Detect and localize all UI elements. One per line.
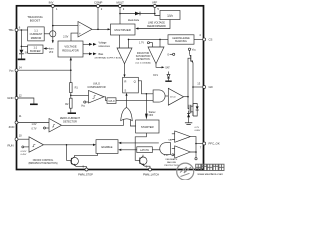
node stop-transistor tap	[66, 144, 68, 146]
svg-text:14: 14	[19, 66, 22, 70]
svg-text:INDUCTOR: INDUCTOR	[137, 53, 149, 55]
svg-text:Bias: Bias	[99, 53, 104, 56]
transistor Q11 (PWM_LATCH)	[139, 157, 147, 165]
svg-text:VOLTAGE: VOLTAGE	[64, 45, 77, 49]
comparator U3 ZCD	[49, 119, 62, 133]
block MULTIPLIER	[111, 24, 136, 35]
wire CS sense to T1	[128, 39, 130, 48]
ground (zener D3)	[165, 81, 171, 82]
ground (R2)	[70, 108, 72, 112]
wire E/A + input to 2.5V	[71, 33, 78, 41]
wire CS sense to T2	[159, 39, 161, 47]
pin 3 MULT	[119, 5, 122, 8]
svg-text:Driver: Driver	[170, 96, 176, 99]
svg-text:LEADING-EDGE: LEADING-EDGE	[172, 37, 190, 40]
wire FFP row into ENABLE	[121, 142, 159, 144]
node 2.5V terminal	[172, 154, 174, 156]
node MULT/diode junction	[119, 13, 121, 15]
svg-text:SAT: SAT	[168, 138, 173, 141]
svg-text:+: +	[79, 32, 81, 36]
pin 5 VFF	[153, 5, 156, 8]
svg-text:PFC_OK: PFC_OK	[209, 142, 220, 146]
svg-text:1:1: 1:1	[33, 46, 37, 50]
svg-text:RUN: RUN	[7, 143, 13, 147]
svg-text:UVLO: UVLO	[108, 101, 114, 103]
node Vcc input terminal	[84, 101, 86, 103]
wire divider to UVLO comparator	[71, 94, 89, 96]
svg-text:SATURATION: SATURATION	[136, 55, 151, 58]
svg-text:VFF: VFF	[49, 52, 54, 54]
svg-text:from: from	[49, 48, 54, 51]
and-gate U8 FFP (output left)	[160, 143, 171, 155]
svg-text:2.5V: 2.5V	[63, 36, 68, 39]
block LATCH1	[137, 147, 153, 153]
watermark stamp circle	[177, 163, 194, 180]
wire RUN comparator output to ENABLE	[44, 144, 94, 146]
svg-text:(BROWNOUT DETECTION): (BROWNOUT DETECTION)	[28, 163, 57, 165]
arrow bias internal supply bus	[83, 53, 90, 55]
pin 10 RUN	[15, 138, 18, 141]
node RUN threshold terminal	[22, 146, 24, 148]
wire MULT pin drop	[119, 6, 121, 24]
svg-text:BLANKING: BLANKING	[175, 40, 187, 43]
wire TBO pin to mirror	[18, 29, 28, 31]
wire GND pin to ground	[18, 98, 34, 104]
svg-text:1/V²: 1/V²	[167, 14, 173, 18]
resistor R1	[70, 83, 73, 93]
ground (zener)	[18, 59, 26, 61]
wire starter off	[145, 94, 147, 114]
wire LEB to CS pin	[194, 38, 203, 40]
block 1/V2	[160, 11, 180, 20]
wire gate node	[192, 63, 194, 116]
from VFF arrow into buffer	[43, 47, 46, 50]
wire starter bottom to latch transistor	[135, 133, 146, 160]
node internal Vcc	[188, 48, 190, 50]
comparator T1 PWM (down)	[117, 48, 132, 64]
svg-text:0.7V: 0.7V	[32, 128, 37, 131]
svg-text:FAILURE: FAILURE	[167, 161, 177, 164]
svg-text:BUFFER: BUFFER	[30, 49, 41, 53]
pin 2 COMP	[97, 5, 100, 8]
transistor Q9 (totem pole lower)	[188, 105, 190, 113]
svg-text:ON/OFF CONTROL: ON/OFF CONTROL	[33, 160, 54, 162]
svg-text:BOOST: BOOST	[30, 19, 41, 23]
svg-text:1.6V: 1.6V	[32, 123, 37, 126]
svg-text:Vcc: Vcc	[9, 68, 14, 72]
pin 12 GND	[15, 97, 18, 100]
wire VFF pin drop into 1/V2	[155, 6, 160, 16]
svg-text:12: 12	[19, 93, 22, 97]
wire ZCD pin to comparator	[18, 122, 50, 124]
wire ideal diode row	[120, 13, 155, 15]
svg-text:FEEDFORWARD: FEEDFORWARD	[147, 25, 166, 28]
node CS/T1 junction	[128, 39, 130, 41]
pin 7 PFC_OK	[203, 142, 206, 145]
svg-text:CURRENT: CURRENT	[30, 32, 43, 36]
svg-text:0.52V: 0.52V	[21, 151, 27, 153]
diode D5 (PFC_OK pull-up)	[188, 111, 190, 123]
pin 9 PWM_STOP	[85, 168, 88, 171]
block 1:1 BUFFER	[28, 45, 43, 53]
svg-text:Ideal diode: Ideal diode	[128, 20, 140, 22]
wire CS row	[129, 38, 169, 40]
svg-text:GND: GND	[7, 96, 13, 100]
wire UVLO to driver AND gate	[116, 99, 153, 101]
wire ZCD output to OR gate	[62, 119, 124, 125]
wire T1 output to flip-flop R	[124, 64, 126, 77]
svg-text:PWM_STOP: PWM_STOP	[78, 172, 93, 176]
pin 8 PWM_LATCH	[149, 168, 152, 171]
svg-text:PROTECTION: PROTECTION	[164, 165, 179, 167]
svg-text:GD: GD	[209, 85, 213, 89]
node starter-off tap	[146, 93, 148, 95]
wire OR output to flip-flop S	[126, 94, 128, 108]
svg-text:UVLO: UVLO	[93, 81, 100, 85]
svg-text:10: 10	[19, 133, 22, 137]
svg-text:SAT: SAT	[165, 67, 170, 70]
svg-text:STARTER: STARTER	[141, 125, 154, 129]
wire driver output node	[184, 96, 188, 98]
resistor R2	[70, 98, 73, 108]
wire node to buffer box	[21, 45, 27, 47]
zener D1 3V	[19, 50, 23, 54]
svg-text:DETECTION: DETECTION	[136, 59, 150, 61]
svg-text:0.88V: 0.88V	[195, 130, 201, 132]
node TBO branch	[21, 29, 23, 31]
node COMP junction	[97, 29, 99, 31]
pin 1 INV	[51, 5, 54, 8]
comparator U9 RUN (brownout)	[29, 137, 44, 152]
wire Vcc rail	[18, 69, 71, 71]
wire comparator outputs to PFC_OK pin	[190, 137, 196, 152]
svg-text:MULT: MULT	[116, 0, 124, 4]
wire TBO down to zener	[20, 30, 22, 50]
flip-flop U5 SR latch	[123, 77, 139, 93]
svg-text:ZCD: ZCD	[9, 125, 15, 129]
svg-text:VFF: VFF	[152, 0, 158, 4]
wire 1/V2 output into multiplier	[137, 20, 170, 29]
svg-text:references: references	[99, 45, 111, 48]
svg-text:R: R	[124, 80, 126, 84]
diode D4 (gate clamp)	[193, 104, 197, 107]
pin 14 Vcc	[15, 69, 18, 72]
block STARTER	[136, 120, 159, 133]
node Vcc rail junction	[70, 69, 72, 71]
wire E/A output to multiplier	[92, 28, 110, 30]
arrow voltage references	[83, 43, 90, 45]
svg-text:PWM_LATCH: PWM_LATCH	[143, 172, 159, 176]
wire RUN pin to comparator	[18, 138, 30, 140]
node CS/T2 junction	[159, 39, 161, 41]
svg-text:0.45V: 0.45V	[21, 154, 27, 156]
svg-text:-: -	[79, 24, 80, 28]
node ZCD threshold terminal	[44, 127, 46, 129]
svg-text:(INTERNAL SUPPLY BUS): (INTERNAL SUPPLY BUS)	[95, 56, 122, 59]
svg-text:13: 13	[197, 82, 200, 86]
comparator CA (PFC_OK upper)	[175, 131, 191, 142]
block 1:1 CURRENT MIRROR	[28, 27, 45, 41]
current source I1 (tracking boost mirror output)	[52, 26, 54, 31]
wire SAT output	[156, 64, 163, 68]
svg-text:8.1V: 8.1V	[153, 74, 158, 77]
svg-text:TBo: TBo	[8, 28, 14, 32]
svg-text:(not in L6562A): (not in L6562A)	[136, 61, 151, 64]
wire COMP pin drop	[97, 6, 99, 29]
wire mirror box to current source	[44, 33, 50, 35]
svg-text:MIRROR: MIRROR	[31, 36, 42, 40]
wire INV pin drop to error amp	[53, 6, 78, 26]
svg-text:COMP: COMP	[94, 0, 103, 4]
wire multiplier output to T1	[119, 35, 121, 48]
diode D2 ideal diode	[135, 12, 140, 16]
wire regulator to divider	[70, 57, 72, 82]
svg-text:DETECTOR: DETECTOR	[63, 120, 77, 123]
svg-text:COMPARATOR: COMPARATOR	[87, 85, 105, 89]
svg-text:S: S	[124, 89, 126, 93]
comparator T2 saturation (down)	[148, 47, 164, 64]
svg-text:1:1: 1:1	[34, 29, 38, 33]
svg-text:0.2V: 0.2V	[195, 127, 200, 129]
transistor Q8 (totem pole upper NPN)	[190, 55, 192, 62]
node INV/E-A junction	[52, 25, 54, 27]
svg-text:INV: INV	[49, 0, 54, 4]
or-gate U4 (zcd/starter)	[121, 107, 133, 120]
svg-text:1.7V: 1.7V	[139, 42, 144, 45]
wire starter to OR input	[130, 119, 135, 126]
svg-text:REGULATOR: REGULATOR	[62, 49, 79, 53]
block ENABLE	[96, 140, 118, 154]
node divider midpoint	[70, 93, 72, 99]
block VOLTAGE REGULATOR	[58, 41, 83, 57]
wire LATCH1 into ENABLE	[121, 149, 137, 151]
svg-text:www.elecfans.com: www.elecfans.com	[198, 172, 224, 176]
buffer U7 driver	[168, 88, 183, 105]
wire comparator to UVLO box	[104, 97, 107, 101]
svg-text:FEEDBACK: FEEDBACK	[166, 158, 178, 161]
svg-text:3V: 3V	[25, 51, 28, 54]
IC boundary border	[17, 6, 204, 170]
capacitor C1 (reference)	[185, 122, 192, 124]
wire AND to LATCH1	[152, 149, 160, 151]
wire Q output to driver AND	[138, 81, 153, 94]
pin 4 CS	[203, 38, 206, 41]
svg-text:MULTIPLIER: MULTIPLIER	[115, 28, 131, 32]
pin 13 GD	[203, 86, 206, 89]
block LEADING-EDGE BLANKING	[168, 35, 194, 44]
watermark CJK text	[196, 164, 224, 170]
and-gate U6 driver enable	[153, 90, 165, 102]
arrow into regulator bottom	[70, 57, 72, 60]
comparator U2 UVLO	[89, 91, 105, 104]
wire AND to driver	[165, 95, 168, 97]
svg-text:OFF: OFF	[149, 115, 154, 117]
wire to GD pin	[193, 86, 203, 88]
wire to disable switch	[195, 152, 197, 158]
pin 11 ZCD	[15, 121, 18, 124]
svg-text:G: G	[167, 53, 169, 56]
block UVLO	[107, 98, 116, 104]
svg-text:CS: CS	[209, 38, 213, 42]
svg-text:ENABLE: ENABLE	[101, 145, 112, 149]
pin 6 TBO	[15, 29, 18, 32]
svg-text:2.5V: 2.5V	[164, 155, 169, 157]
node buffer tap	[21, 46, 23, 48]
node VFF junction	[154, 13, 156, 15]
op-amp U1 error amplifier	[78, 22, 92, 38]
svg-text:Starter: Starter	[149, 111, 156, 114]
svg-text:LATCH1: LATCH1	[140, 149, 149, 152]
transistor Q10 (PWM_STOP)	[67, 145, 72, 161]
comparator CB (PFC_OK lower / FFP)	[175, 146, 191, 158]
ground (GND pin)	[30, 104, 38, 106]
